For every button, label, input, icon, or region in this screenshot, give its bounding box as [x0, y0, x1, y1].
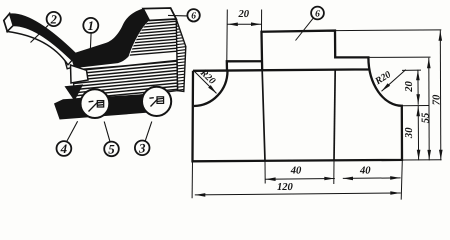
- leader to balloon 4: [67, 121, 78, 142]
- svg-text:55: 55: [420, 112, 431, 123]
- interior divider at x=40: [262, 71, 265, 161]
- cab 6 : white top face: [143, 8, 176, 21]
- dim 40 left: [265, 178, 335, 181]
- dim 120: [195, 193, 401, 195]
- cart body 1 : black shaded deck and curved ramp: [64, 9, 149, 69]
- balloon 6 (view): [311, 7, 324, 20]
- svg-text:3: 3: [138, 141, 146, 156]
- R20 leader right: [382, 70, 406, 92]
- dim 40 right: [343, 177, 401, 180]
- leader to balloon 6 (view): [296, 18, 314, 40]
- balloon 3: [135, 141, 150, 156]
- svg-text:6: 6: [191, 12, 196, 22]
- extension at deck level to 20 dim: [402, 69, 421, 71]
- svg-text:2: 2: [50, 13, 57, 27]
- svg-text:40: 40: [359, 165, 371, 176]
- leader to balloon 2: [31, 25, 49, 42]
- chute 2 : top end face: [4, 14, 14, 32]
- extension lines top dim 20: [226, 10, 229, 62]
- dim 20 right: [417, 70, 419, 105]
- svg-text:20: 20: [238, 9, 250, 20]
- leader to balloon 5: [104, 122, 110, 142]
- svg-text:6: 6: [315, 9, 320, 19]
- chute 2 : black top face (curved band): [10, 13, 77, 60]
- front view outline of body: [193, 31, 403, 162]
- wheel 3 (rear): [142, 87, 171, 116]
- balloon 1: [83, 18, 98, 33]
- svg-text:20: 20: [404, 81, 415, 93]
- base plate 4 : black slab: [54, 93, 168, 120]
- leader to balloon 3: [145, 122, 152, 142]
- svg-text:1: 1: [88, 18, 95, 33]
- shadow wedge under chute tip: [65, 84, 84, 101]
- extension bottom right: [402, 159, 441, 161]
- dim 70: [439, 30, 442, 160]
- leader to balloon 1: [89, 33, 92, 54]
- cart body 1 : deck top-left white corner: [65, 56, 75, 68]
- extension at arc end to 20/30 junction: [402, 105, 429, 107]
- dim 30 right: [417, 106, 419, 160]
- balloon 6 (pictorial): [187, 9, 199, 21]
- balloon 2: [47, 12, 61, 26]
- svg-text:70: 70: [431, 94, 442, 105]
- svg-text:5: 5: [108, 142, 115, 157]
- chute 2 : white front face (curved band): [7, 25, 72, 64]
- extension step top to 55 dim: [368, 56, 430, 58]
- dim 55: [428, 58, 430, 161]
- svg-text:120: 120: [277, 182, 294, 193]
- left concave arc R20: [194, 71, 228, 106]
- svg-text:40: 40: [290, 166, 302, 177]
- wheel 3 hub pin: [149, 97, 163, 107]
- leader to balloon 6 (pictorial): [168, 14, 187, 17]
- interior divider at x=80: [334, 69, 335, 161]
- svg-text:4: 4: [60, 141, 68, 156]
- balloon 4: [57, 141, 72, 156]
- wheel 5 (front): [81, 89, 110, 118]
- balloon 5: [104, 142, 119, 157]
- R20 leader left: [194, 71, 217, 94]
- chute 2 : lower end foot face: [71, 65, 89, 83]
- extensions for bottom dims: [191, 161, 193, 198]
- dim 20 (top): [227, 23, 261, 25]
- extension cab top to 70 dim: [335, 29, 441, 32]
- wheel 5 hub pin: [89, 101, 104, 112]
- svg-text:30: 30: [404, 127, 415, 139]
